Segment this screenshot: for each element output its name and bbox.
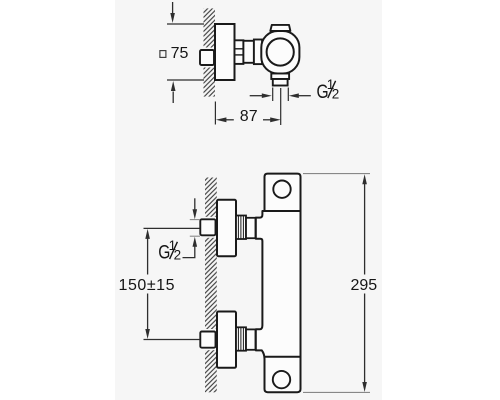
dim 295: top extension line bbox=[303, 173, 370, 175]
dim G1/2 top: left arrow bbox=[250, 93, 272, 98]
svg-text:75: 75 bbox=[171, 45, 189, 62]
wall (hatched) top view bbox=[204, 8, 216, 96]
dim G1/2 top: right arrow bbox=[289, 93, 311, 98]
valve inner circle (top view) bbox=[267, 38, 294, 65]
dim 295: vertical line with arrows bbox=[362, 174, 367, 392]
svg-text:150±15: 150±15 bbox=[119, 277, 176, 294]
dim 87: left arrow bbox=[216, 117, 234, 122]
upper connector piece bbox=[246, 218, 256, 238]
escutcheon plate (top view) bbox=[215, 24, 235, 80]
upper square inlet fitting behind wall bbox=[198, 217, 218, 238]
svg-text:2: 2 bbox=[174, 248, 182, 263]
dim 295: bottom extension line bbox=[303, 391, 370, 393]
dim 75: bottom arrow bbox=[171, 81, 176, 103]
dim 87: outlet centre line bbox=[280, 88, 282, 125]
dim G1/2 front: up arrow with leader bbox=[183, 237, 198, 258]
valve round body (top view) bbox=[261, 31, 299, 74]
top mounting hole circle bbox=[273, 181, 290, 198]
lower escutcheon flange bbox=[217, 312, 236, 368]
connector piece 2 (top view) bbox=[254, 40, 262, 65]
union nut (top view) bbox=[235, 40, 244, 64]
square inlet fitting behind wall (top view) bbox=[198, 48, 217, 68]
svg-text:87: 87 bbox=[240, 108, 258, 125]
label G1/2 top bbox=[317, 77, 340, 102]
outlet nipple G1/2 (top view) bbox=[273, 79, 288, 86]
lower connector piece bbox=[246, 329, 256, 349]
bottom plate separator line bbox=[265, 356, 301, 358]
lower square inlet fitting behind wall bbox=[198, 329, 218, 350]
dim 150: bottom extension line bbox=[144, 339, 200, 341]
wall (hatched) front view bbox=[205, 178, 217, 393]
mixer body silhouette (front view) bbox=[256, 174, 301, 393]
outlet collar (top view) bbox=[271, 74, 289, 80]
upper escutcheon flange bbox=[217, 200, 236, 256]
temperature knob cap (top view) bbox=[270, 25, 290, 31]
top plate separator line bbox=[265, 210, 301, 212]
dim 75: top extension line bbox=[167, 23, 204, 25]
dim 87: right arrow bbox=[263, 117, 281, 122]
bottom mounting hole circle bbox=[273, 371, 290, 388]
dim 75: top arrow bbox=[170, 2, 175, 23]
dim G1/2 front: top extension tick bbox=[190, 219, 200, 221]
dim G1/2 top: left extension line bbox=[272, 88, 274, 102]
dim 150: vertical line with arrows bbox=[145, 229, 150, 339]
upper union nut bbox=[236, 216, 246, 240]
connector piece 1 (top view) bbox=[243, 41, 254, 63]
dim G1/2 front: down arrow bbox=[193, 198, 198, 219]
svg-text:295: 295 bbox=[351, 277, 378, 294]
svg-text:2: 2 bbox=[332, 87, 340, 102]
lower union nut bbox=[236, 327, 246, 350]
dim 87: wall face extension line bbox=[214, 102, 216, 125]
dim G1/2 top: right extension line bbox=[287, 88, 289, 102]
label G1/2 front bbox=[158, 238, 181, 263]
dim 75: bottom extension line bbox=[167, 79, 204, 81]
label square-75 bbox=[160, 45, 189, 62]
gray drawing panel background bbox=[115, 0, 382, 400]
dim 150: top extension line bbox=[144, 227, 200, 229]
dim G1/2 front: bottom extension tick bbox=[190, 235, 200, 237]
